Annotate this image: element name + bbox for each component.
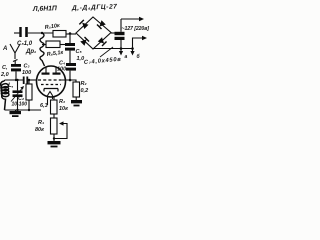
svg-text:б: б [137,53,141,60]
svg-text:С,: С, [2,65,8,71]
capacitor C7 (electrolytic at bridge output) [115,32,125,35]
capacitor C3 (series in grid rail) [23,77,25,85]
svg-text:R₃: R₃ [59,99,65,105]
svg-text:С₇4,0х450в: С₇4,0х450в [84,57,122,66]
bridge frame wires [76,17,111,49]
svg-text:80к: 80к [35,127,45,133]
wire node X down [69,34,71,44]
svg-text:~127 [220в]: ~127 [220в] [122,26,150,32]
terminal a (down arrow) [120,49,122,52]
svg-text:R₆5,1к: R₆5,1к [46,50,64,58]
svg-text:Л,6Н1П: Л,6Н1П [32,5,57,13]
resistor R6 5,1k (horizontal, anode load) [42,44,46,46]
tube grid 2 (dashed) [41,84,61,86]
variable capacitor C2 10-100 [17,80,19,90]
grid rail wire [5,79,24,81]
svg-text:R₂: R₂ [81,81,87,87]
resistor R2 0,2 [73,82,80,97]
pot wiper wire [54,124,67,139]
ground under R4 [48,141,61,144]
ground (tank circuit) [15,110,17,111]
svg-text:R₅10к: R₅10к [44,23,61,31]
tube L1 6N1P envelope [37,66,66,97]
terminal b (down arrow) [132,49,134,52]
wire cathode to R2 [62,80,76,82]
tube cathode [44,89,58,92]
choke Dr1 (vertical winding from top rail to tube anode) [40,33,45,66]
node a junction [120,47,123,50]
wire top rail mid [28,32,53,34]
diode D1 upper-left [79,20,88,29]
coil L1 [1,81,9,110]
mains arrow 2 [133,38,143,48]
wire top rail left lead [14,32,20,34]
svg-text:а: а [125,54,128,60]
potentiometer R4 80k [51,118,58,134]
ground under R2 [71,100,82,103]
node cathode junction [69,79,72,82]
wire top rail between R5 and bridge [66,33,76,35]
tube grid (dashed) [38,79,62,81]
svg-text:А: А [2,46,7,52]
label C7 value with leader [100,47,113,57]
svg-text:10-100: 10-100 [12,102,28,108]
capacitor C4 100 [66,63,76,66]
svg-text:L,: L, [8,83,14,89]
tube heater [48,92,53,96]
node antenna/C1 junction [15,79,17,81]
node: choke/top-rail junction [41,32,43,34]
heater leads [48,96,53,106]
node R4 bottom / wiper [53,137,55,139]
svg-text:100: 100 [22,70,31,76]
diode D4 lower-right [98,37,107,46]
diode D3 lower-left [80,37,89,46]
svg-text:С₃: С₃ [24,64,30,70]
wire C7 top up to mains arrow [120,19,122,32]
svg-text:10к: 10к [59,106,69,112]
diode bridge D1-D4 [76,17,111,49]
cathode lead to R3 [53,97,55,100]
node C2 bottom [16,109,18,111]
tube anode leads [46,67,56,73]
svg-text:0,2: 0,2 [81,88,89,94]
mains arrow 1 [121,18,139,20]
capacitor C1 [11,64,21,67]
svg-text:6,3: 6,3 [40,103,48,109]
wire C4 down to cathode rail [69,71,71,80]
svg-text:R₄: R₄ [38,120,44,126]
node X on top rail [69,32,72,35]
antenna A [10,44,20,64]
resistor R1 (grid leak) [28,80,30,84]
capacitor C5 1,0 [65,43,75,46]
svg-text:2,0: 2,0 [0,72,9,78]
resistor R5 10k [53,31,66,38]
tube anode plates [42,73,50,75]
wire bridge bottom corner to terminals [93,48,133,50]
pot wiper arrowhead [59,121,64,125]
bottom rail wire [5,109,42,111]
diode D2 upper-right [97,20,106,29]
resistor R3 10k [51,100,58,114]
svg-text:С₅: С₅ [76,49,83,55]
wire bridge right corner to C7 [111,32,115,34]
wire between C5 and C4 [69,51,71,63]
svg-text:Др₁: Др₁ [25,49,36,55]
svg-text:Д,-Д₄ДГЦ-27: Д,-Д₄ДГЦ-27 [71,3,118,12]
node b junction [131,47,134,50]
node C2 top [16,79,18,81]
capacitor C8 1,0 (bold series cap in top rail) [19,27,21,37]
wire C7 bottom to output rail [120,40,122,49]
